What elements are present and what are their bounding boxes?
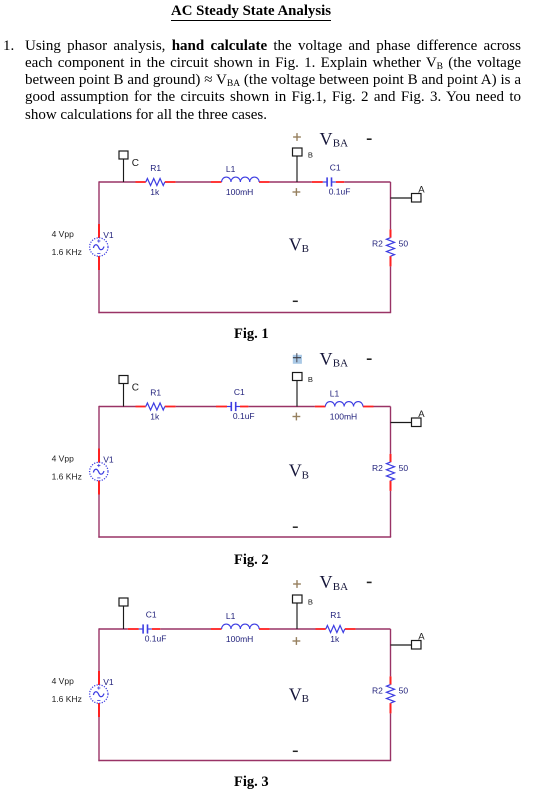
pin stub left of resistor R1 (Fig 3) bbox=[316, 628, 326, 630]
pin stub left of capacitor C1 (Fig 2) bbox=[216, 406, 227, 408]
wire: top rail segment 2 (Fig 2) bbox=[176, 406, 216, 408]
- marker below VB bbox=[293, 300, 298, 302]
terminal C pad and stub (Fig 1) bbox=[119, 151, 128, 159]
wire: top rail segment 3 (Fig 2) bbox=[248, 406, 315, 408]
wire: right rail lower segment (Fig 2) bbox=[390, 491, 392, 537]
resistor R2 (Fig 2) bbox=[387, 462, 395, 480]
pin stub right of inductor L1 (Fig 3) bbox=[259, 628, 270, 630]
pin stub right of capacitor C1 (Fig 2) bbox=[240, 406, 248, 408]
wire: bottom rail (Fig 3) bbox=[98, 760, 391, 762]
svg-text:L1: L1 bbox=[226, 164, 236, 174]
pin stub top of source V1 (Fig 2) bbox=[98, 449, 100, 463]
pin stub right of inductor L1 (Fig 2) bbox=[363, 406, 374, 408]
svg-text:0.1uF: 0.1uF bbox=[145, 633, 167, 643]
svg-text:BA: BA bbox=[333, 138, 348, 150]
svg-text:A: A bbox=[418, 632, 425, 643]
wire: top rail segment 2 (Fig 1) bbox=[176, 181, 211, 183]
svg-text:V: V bbox=[320, 573, 333, 592]
svg-text:L1: L1 bbox=[330, 389, 340, 399]
wire: left rail upper segment (Fig 2) bbox=[98, 406, 100, 449]
svg-text:V: V bbox=[289, 234, 302, 254]
svg-text:B: B bbox=[308, 150, 313, 159]
svg-text:R2: R2 bbox=[372, 686, 383, 696]
wire: top rail segment 4 (Fig 1) bbox=[344, 181, 390, 183]
resistor R1 (Fig 2) bbox=[146, 403, 165, 410]
pin stub top of resistor R2 (Fig 2) bbox=[390, 454, 392, 462]
svg-text:R1: R1 bbox=[330, 610, 341, 620]
svg-text:100mH: 100mH bbox=[330, 412, 357, 422]
wire: right rail upper segment (Fig 2) bbox=[390, 407, 392, 454]
svg-text:V: V bbox=[320, 129, 333, 149]
circuit Fig 3 bbox=[0, 573, 545, 799]
caption Fig. 3 bbox=[234, 774, 269, 791]
svg-text:100mH: 100mH bbox=[226, 187, 253, 197]
svg-text:L1: L1 bbox=[226, 611, 236, 621]
svg-text:4 Vpp: 4 Vpp bbox=[52, 676, 74, 686]
circuit Fig 2 bbox=[0, 348, 545, 553]
resistor R2 (Fig 1) bbox=[387, 238, 395, 256]
wire: right rail lower segment (Fig 3) bbox=[390, 713, 392, 760]
pin stub top of source V1 (Fig 3) bbox=[98, 671, 100, 685]
svg-text:R2: R2 bbox=[372, 463, 383, 473]
pin stub bottom of resistor R2 (Fig 2) bbox=[390, 481, 392, 491]
problem paragraph bbox=[25, 38, 521, 124]
wire: right rail upper segment (Fig 1) bbox=[390, 182, 392, 229]
svg-text:1.6 KHz: 1.6 KHz bbox=[52, 247, 82, 257]
svg-text:1k: 1k bbox=[150, 412, 160, 422]
svg-text:B: B bbox=[308, 375, 313, 384]
terminal B pad and stub (Fig 2) bbox=[293, 373, 303, 381]
AC source V1 (Fig 2) bbox=[90, 462, 108, 480]
terminal C pad and stub (Fig 2) bbox=[119, 376, 128, 384]
pin stub bottom of source V1 (Fig 3) bbox=[98, 703, 100, 717]
wire: left rail upper segment (Fig 3) bbox=[98, 628, 100, 671]
wire: left rail lower segment (Fig 1) bbox=[98, 270, 100, 313]
terminal A stub and pad (Fig 1) bbox=[391, 197, 412, 199]
caption Fig. 1 bbox=[234, 326, 269, 343]
terminal B pad and stub (Fig 1) bbox=[293, 148, 303, 156]
svg-text:1k: 1k bbox=[330, 634, 340, 644]
pin stub top of resistor R2 (Fig 1) bbox=[390, 229, 392, 237]
pin stub right of resistor R1 (Fig 3) bbox=[345, 628, 356, 630]
svg-text:C: C bbox=[132, 383, 139, 394]
svg-text:BA: BA bbox=[333, 358, 348, 370]
svg-text:V: V bbox=[289, 461, 302, 481]
terminal A stub and pad (Fig 3) bbox=[391, 644, 412, 646]
svg-text:R1: R1 bbox=[150, 388, 161, 398]
+ marker of VBA bbox=[293, 136, 301, 138]
pin stub top of source V1 (Fig 1) bbox=[98, 224, 100, 238]
wire: left rail lower segment (Fig 2) bbox=[98, 495, 100, 538]
svg-text:R1: R1 bbox=[150, 163, 161, 173]
svg-text:50: 50 bbox=[399, 686, 409, 696]
svg-text:4 Vpp: 4 Vpp bbox=[52, 454, 74, 464]
svg-text:0.1uF: 0.1uF bbox=[233, 411, 255, 421]
+ marker above VB bbox=[293, 416, 301, 418]
resistor R2 (Fig 3) bbox=[387, 685, 395, 703]
wire: bottom rail (Fig 2) bbox=[98, 536, 391, 538]
title bbox=[0, 3, 502, 20]
terminal C pad and stub (Fig 3) bbox=[119, 598, 128, 606]
svg-text:0.1uF: 0.1uF bbox=[329, 186, 351, 196]
wire: bottom rail (Fig 1) bbox=[98, 312, 391, 314]
wire: left rail upper segment (Fig 1) bbox=[98, 181, 100, 224]
wire: top rail segment 1 (Fig 3) bbox=[99, 628, 128, 630]
- marker of VBA bbox=[367, 138, 372, 140]
wire: top rail segment 4 (Fig 2) bbox=[374, 406, 391, 408]
svg-text:B: B bbox=[302, 243, 309, 255]
highlighted + marker above terminal B bbox=[293, 355, 302, 364]
svg-text:A: A bbox=[418, 409, 425, 420]
svg-text:V1: V1 bbox=[103, 455, 114, 465]
wire: top rail segment 3 (Fig 1) bbox=[270, 181, 312, 183]
+ marker above VB bbox=[293, 640, 301, 642]
svg-text:C: C bbox=[132, 158, 139, 169]
svg-text:V: V bbox=[320, 349, 333, 369]
svg-text:C1: C1 bbox=[234, 387, 245, 397]
svg-text:V: V bbox=[289, 684, 302, 704]
svg-text:50: 50 bbox=[399, 463, 409, 473]
pin stub bottom of source V1 (Fig 1) bbox=[98, 256, 100, 270]
- marker below VB bbox=[293, 526, 298, 528]
resistor R1 (Fig 3) bbox=[326, 626, 345, 633]
pin stub bottom of resistor R2 (Fig 3) bbox=[390, 703, 392, 713]
inductor L1 (Fig 1) bbox=[222, 177, 260, 182]
svg-text:R2: R2 bbox=[372, 239, 383, 249]
pin stub left of inductor L1 (Fig 1) bbox=[211, 181, 222, 183]
AC source V1 (Fig 3) bbox=[90, 685, 108, 703]
inductor L1 (Fig 3) bbox=[222, 624, 260, 629]
caption Fig. 2 bbox=[234, 552, 269, 569]
wire: top rail segment 3 (Fig 3) bbox=[270, 628, 316, 630]
pin stub bottom of resistor R2 (Fig 1) bbox=[390, 256, 392, 266]
pin stub left of capacitor C1 (Fig 1) bbox=[312, 181, 323, 183]
wire: right rail lower segment (Fig 1) bbox=[390, 266, 392, 312]
pin stub right of resistor R1 (Fig 1) bbox=[165, 181, 176, 183]
terminal B pad and stub (Fig 3) bbox=[293, 595, 303, 603]
wire: top rail segment 1 (Fig 1) bbox=[99, 181, 136, 183]
pin stub left of inductor L1 (Fig 3) bbox=[211, 628, 222, 630]
wire: top rail segment 4 (Fig 3) bbox=[356, 628, 391, 630]
capacitor C1 (Fig 3) bbox=[142, 624, 144, 633]
wire: top rail segment 1 (Fig 2) bbox=[99, 406, 136, 408]
svg-text:B: B bbox=[302, 693, 309, 705]
AC source V1 (Fig 1) bbox=[90, 238, 108, 256]
capacitor C1 (Fig 1) bbox=[326, 177, 328, 186]
pin stub top of resistor R2 (Fig 3) bbox=[390, 676, 392, 684]
svg-text:BA: BA bbox=[333, 581, 348, 593]
wire: left rail lower segment (Fig 3) bbox=[98, 717, 100, 761]
svg-text:C1: C1 bbox=[146, 610, 157, 620]
+ marker above VB bbox=[293, 191, 301, 193]
svg-text:V1: V1 bbox=[103, 230, 114, 240]
svg-text:1.6 KHz: 1.6 KHz bbox=[52, 694, 82, 704]
capacitor C1 (Fig 2) bbox=[230, 402, 232, 411]
svg-text:V1: V1 bbox=[103, 677, 114, 687]
+ marker of VBA bbox=[293, 583, 301, 585]
svg-text:1.6 KHz: 1.6 KHz bbox=[52, 472, 82, 482]
pin stub right of resistor R1 (Fig 2) bbox=[165, 406, 176, 408]
pin stub left of resistor R1 (Fig 2) bbox=[136, 406, 146, 408]
pin stub right of capacitor C1 (Fig 3) bbox=[152, 628, 160, 630]
svg-text:4 Vpp: 4 Vpp bbox=[52, 229, 74, 239]
svg-text:B: B bbox=[308, 597, 313, 606]
pin stub left of capacitor C1 (Fig 3) bbox=[128, 628, 139, 630]
resistor R1 (Fig 1) bbox=[146, 179, 165, 186]
wire: right rail upper segment (Fig 3) bbox=[390, 629, 392, 676]
svg-text:100mH: 100mH bbox=[226, 634, 253, 644]
circuit Fig 1 bbox=[0, 125, 545, 350]
pin stub right of capacitor C1 (Fig 1) bbox=[336, 181, 344, 183]
pin stub right of inductor L1 (Fig 1) bbox=[259, 181, 270, 183]
svg-text:1k: 1k bbox=[150, 187, 160, 197]
- marker below VB bbox=[293, 750, 298, 752]
pin stub left of resistor R1 (Fig 1) bbox=[136, 181, 146, 183]
svg-text:C1: C1 bbox=[330, 163, 341, 173]
- marker of VBA bbox=[367, 358, 372, 360]
inductor L1 (Fig 2) bbox=[325, 402, 363, 407]
terminal A stub and pad (Fig 2) bbox=[391, 422, 412, 424]
wire: top rail segment 2 (Fig 3) bbox=[160, 628, 211, 630]
list number bbox=[3, 38, 14, 55]
pin stub bottom of source V1 (Fig 2) bbox=[98, 481, 100, 495]
- marker of VBA bbox=[367, 581, 372, 583]
svg-text:A: A bbox=[418, 185, 425, 196]
svg-text:50: 50 bbox=[399, 239, 409, 249]
pin stub left of inductor L1 (Fig 2) bbox=[315, 406, 326, 408]
svg-text:B: B bbox=[302, 469, 309, 481]
